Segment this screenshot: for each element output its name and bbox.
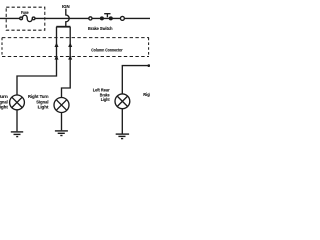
svg-text:Signal: Signal: [36, 99, 48, 104]
svg-text:Light: Light: [38, 105, 49, 110]
svg-text:Light: Light: [101, 97, 110, 102]
turn signal switch connector bar: [56, 26, 70, 28]
brake switch S1: [89, 14, 125, 21]
svg-text:Signal: Signal: [0, 99, 8, 104]
lamp: left rear brake light: [115, 94, 130, 109]
wire: brake switch output to right edge: [124, 17, 150, 19]
wire: right turn signal feed (connector to right lamp): [62, 27, 71, 98]
ground under left turn signal lamp: [11, 132, 23, 137]
column connector right dashed cap: [148, 38, 150, 57]
wire: main feed, battery to fuse: [0, 17, 20, 19]
wire: brake light feed from right edge to left rear lamp: [122, 66, 150, 94]
label Left Rear Brake Light: [93, 87, 110, 102]
junction dot on brake light feed: [147, 64, 150, 67]
svg-text:Right Rear: Right Rear: [143, 92, 150, 97]
svg-text:Column Connector: Column Connector: [91, 48, 123, 53]
wire: left turn signal feed (connector to left lamp): [17, 27, 57, 95]
fuse F1 symbol: [20, 15, 35, 21]
fuse F1 dashed enclosure: [6, 7, 45, 30]
svg-text:Fuse: Fuse: [21, 10, 29, 15]
svg-text:Brake Switch: Brake Switch: [88, 26, 113, 31]
column connector left dashed cap: [1, 38, 3, 57]
lamp: right turn signal light: [54, 98, 69, 113]
wire: right turn lamp to ground: [61, 113, 63, 131]
svg-text:Light: Light: [0, 105, 8, 110]
wire: left lamp to ground: [16, 110, 18, 132]
svg-text:IGN: IGN: [62, 4, 70, 9]
lamp: left turn signal light: [10, 95, 25, 110]
wire: fuse to brake switch: [35, 17, 120, 19]
column connector upper dashed boundary: [2, 37, 149, 39]
svg-text:Right Turn: Right Turn: [28, 94, 49, 99]
ground under right turn signal lamp: [55, 131, 68, 136]
node IGN lead with hop over main wire: [66, 9, 69, 26]
label Right Turn Signal Light: [28, 94, 49, 110]
column connector lower dashed boundary: [2, 56, 149, 58]
ground under left rear brake lamp: [116, 134, 129, 139]
label Left Turn Signal Light (clipped at left edge): [0, 94, 8, 110]
svg-text:Left Turn: Left Turn: [0, 94, 8, 99]
connector pin arrows: [55, 42, 73, 59]
wire: left rear brake lamp to ground: [121, 109, 123, 134]
